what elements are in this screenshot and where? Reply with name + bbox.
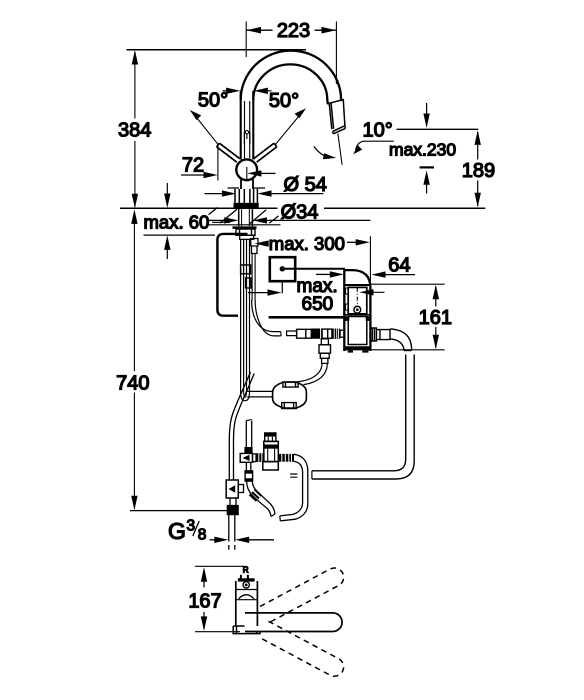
max 300 right arrowhead	[356, 239, 370, 245]
svg-text:max. 300: max. 300	[269, 233, 345, 254]
unit sensor leader shaft	[372, 291, 385, 293]
svg-text:8: 8	[198, 527, 207, 544]
dimension 223 left arrowhead	[246, 27, 261, 34]
lever plan dashed down	[260, 621, 344, 676]
svg-text:Ø 54: Ø 54	[284, 174, 327, 196]
dia 34 dim line right	[267, 219, 371, 221]
hose weight bottom clamp	[282, 403, 297, 409]
10deg leader curve	[356, 141, 364, 150]
max230 lower arrow shaft	[426, 184, 428, 194]
unit right outlet fittings	[370, 328, 376, 341]
mounting shank walls	[239, 208, 253, 226]
svg-text:650: 650	[302, 294, 334, 315]
dimension 189 line	[477, 132, 479, 206]
hose from bundle curving to chain level	[252, 300, 281, 332]
svg-text:189: 189	[462, 160, 495, 182]
spray axis line (10deg)	[338, 134, 342, 165]
body step ticks	[228, 187, 266, 189]
unit inner cavity	[348, 287, 367, 313]
middle pipe top cut	[246, 420, 251, 421]
unit mid line	[345, 314, 369, 316]
unit sensor centerline (dash-dot)	[356, 288, 358, 307]
hose bundle pair 1	[241, 240, 244, 386]
50deg right far arrowhead	[295, 108, 306, 118]
dimension 72 left arrowhead (points right)	[204, 172, 218, 178]
hose break stub	[287, 331, 297, 336]
middle dark nut	[244, 447, 252, 454]
plan body mid line	[236, 589, 257, 591]
lever handle left position	[217, 143, 240, 162]
svg-text:max. 60: max. 60	[144, 212, 210, 233]
left supply pipe lower	[229, 515, 235, 550]
right hose down	[312, 355, 414, 480]
svg-text:R: R	[243, 565, 249, 574]
middle round nut	[245, 471, 253, 481]
connector chain dark block	[311, 329, 322, 339]
mounting washer	[233, 226, 257, 229]
spray head body	[329, 100, 345, 129]
plan body circle	[243, 582, 249, 588]
max230 upper arrowhead (down)	[423, 114, 429, 129]
unit left inner blocks	[346, 288, 349, 310]
left fitting neck	[230, 498, 236, 505]
ball joint	[236, 159, 257, 180]
left hex nut	[227, 505, 238, 514]
sensor cable	[252, 254, 255, 301]
check valve cap	[265, 433, 276, 441]
extension line left of 223	[245, 22, 247, 58]
max230 lower arrowhead (up)	[423, 170, 429, 185]
G3/8 right shaft	[248, 539, 274, 541]
counter hatching left	[209, 207, 238, 223]
max650 left arrowhead	[268, 289, 282, 295]
body below ball	[241, 179, 253, 189]
plan view top reference line	[195, 565, 244, 567]
hose connector block 2	[246, 278, 251, 288]
middle T-fitting	[240, 453, 252, 462]
unit sensor leader arrowhead	[359, 289, 373, 295]
diagonal hose to lower assembly	[229, 372, 254, 480]
spray head bottom joint line	[333, 126, 345, 132]
remote box stem	[281, 281, 283, 293]
control unit top inner line	[344, 284, 370, 286]
counter hatching right	[250, 209, 291, 224]
spout outer curve	[241, 51, 342, 102]
swivel arc left	[314, 146, 330, 157]
dia 34 left arrowhead	[224, 217, 238, 223]
unit lower cavity	[348, 317, 367, 345]
extension line right of 223	[335, 22, 337, 85]
dimension 167 line	[203, 570, 205, 630]
dimension 64 arrowhead	[371, 271, 385, 277]
middle pipe upper	[246, 421, 251, 447]
valve right connector	[278, 454, 294, 462]
svg-text:167: 167	[188, 590, 221, 612]
svg-text:223: 223	[277, 20, 310, 42]
dimension 740 top arrowhead	[131, 209, 137, 224]
plan body top posts	[241, 575, 248, 579]
max 300 right shaft	[347, 241, 357, 243]
G3/8 left arrowhead	[214, 537, 228, 543]
connector chain striped block	[332, 329, 340, 339]
svg-text:50°: 50°	[269, 90, 299, 112]
dimension 384 line	[134, 52, 136, 207]
top reference line (spout height datum)	[127, 49, 307, 51]
max230 upper arrow shaft	[426, 103, 428, 115]
svg-text:161: 161	[419, 307, 452, 329]
max 300 left arrowhead	[255, 240, 269, 246]
max230 lower tick bar	[420, 166, 434, 168]
middle T inner arrow	[243, 455, 250, 461]
10deg leader arrowhead	[353, 145, 362, 154]
faucet column inner tube lines	[245, 101, 250, 159]
hose fitting bands	[250, 490, 262, 502]
svg-text:64: 64	[388, 255, 410, 277]
unit bottom band	[344, 346, 370, 350]
dimension 64 shaft	[384, 274, 415, 276]
max650 right arrow shaft	[316, 273, 332, 275]
dia 54 dim line right	[271, 193, 323, 195]
740 bottom reference line	[130, 510, 227, 512]
mounting nut	[236, 229, 255, 235]
svg-text:max.230: max.230	[389, 140, 456, 160]
big hose open end	[279, 516, 282, 521]
dia 54 left arrowhead	[222, 190, 236, 196]
max 60 bottom line	[144, 234, 216, 236]
svg-text:72: 72	[182, 155, 204, 177]
swivel arc left arrowhead	[323, 153, 336, 159]
valve T body	[263, 462, 279, 470]
remote box	[270, 257, 295, 281]
connector chain block1	[297, 329, 312, 338]
svg-text:50°: 50°	[198, 90, 228, 112]
shank lower stub	[240, 235, 254, 239]
connector chain coupling to unit	[340, 330, 344, 337]
max 60 leader	[212, 221, 230, 223]
sensor cable connector upper	[251, 239, 258, 254]
50deg angle line right	[276, 111, 304, 145]
50deg arrow at column right	[254, 88, 268, 94]
max650 left arrow shaft	[248, 292, 269, 294]
hose from connector to weight	[299, 363, 323, 381]
max 60 upper arrow	[166, 183, 168, 195]
dia 54 right arrowhead	[257, 190, 271, 196]
dimension 189 top arrowhead	[475, 130, 481, 145]
50deg arrow at column left	[226, 88, 240, 94]
hose loop bracket (C-shape)	[217, 234, 247, 316]
middle pipe lower	[246, 462, 250, 471]
50deg angle line left	[192, 112, 218, 144]
big hose from valve to bottom	[280, 454, 308, 521]
161 top reference line	[370, 283, 444, 285]
dimension 72 dim line	[181, 174, 211, 176]
dimension 167 bottom arrowhead	[201, 616, 207, 631]
dimension 161 top arrowhead	[433, 285, 439, 300]
dimension 740 line	[133, 212, 135, 509]
unit side bosses	[345, 316, 350, 321]
check valve body	[264, 441, 279, 461]
max650 dim line	[269, 316, 345, 319]
base flange	[234, 203, 258, 207]
dimension 72 extension line	[217, 146, 219, 181]
remote box dot	[280, 266, 285, 271]
dimension 167 top arrowhead	[201, 567, 207, 582]
faucet column outer walls	[241, 91, 254, 160]
unit feet	[348, 350, 369, 352]
dimension 161 bottom arrowhead	[433, 335, 439, 350]
dimension 384 top arrowhead	[132, 50, 138, 65]
dia 34 right arrowhead	[253, 217, 267, 223]
10deg underline	[363, 140, 394, 142]
spout outlet reference line	[397, 128, 479, 130]
svg-text:740: 740	[116, 373, 149, 395]
connector middle to valve	[253, 454, 257, 462]
column inner detail (cartridge mark)	[244, 132, 250, 145]
plan body cap band	[238, 578, 255, 581]
50deg left far arrowhead	[190, 110, 201, 120]
dimension 189 bottom arrowhead	[475, 193, 481, 208]
dimension 161 line	[435, 287, 437, 348]
control unit outline	[344, 270, 370, 351]
hose weight top clamp	[283, 382, 298, 387]
G3/8 left arrow shaft	[210, 539, 217, 541]
right hose stub to valve	[290, 474, 297, 477]
lever plan dashed up	[260, 568, 344, 623]
hose U-turn at bottom	[241, 385, 250, 401]
left T-fitting inner arrow detail	[229, 485, 236, 492]
G3/8 right arrowhead	[235, 537, 249, 543]
dimension 223 dim line	[246, 29, 336, 31]
left T-fitting	[226, 480, 238, 498]
dimension 223 right arrowhead	[322, 27, 337, 34]
body wide section (O54 housing)	[235, 189, 257, 204]
max650 right arrowhead	[330, 271, 344, 277]
svg-text:G: G	[168, 518, 186, 544]
counter bottom line	[207, 224, 281, 226]
hose from middle nut curving right-down	[247, 481, 271, 517]
dimension 384 bottom arrowhead	[132, 194, 138, 209]
plan body outline	[236, 581, 258, 626]
max 60 lower arrow	[164, 235, 170, 250]
hose left of weight joining bundle	[247, 391, 273, 397]
dimension 72 right shaft	[260, 172, 276, 174]
dia 34 dim line left	[207, 219, 229, 221]
svg-text:10°: 10°	[363, 120, 393, 142]
unit outlet elbow	[390, 329, 412, 351]
hose bundle pair 2	[247, 240, 250, 386]
161 bottom reference line	[371, 349, 445, 351]
max 300 extension line	[369, 236, 371, 284]
plan body smile arc	[239, 595, 254, 599]
dia 54 dim line left	[205, 193, 224, 195]
dimension 72 right arrowhead (points left at axis)	[247, 170, 261, 176]
mounting shank inner lines	[242, 208, 250, 226]
unit indicator circle	[354, 306, 361, 313]
spray head tip	[333, 126, 346, 134]
hose open end	[271, 514, 275, 517]
left T side stub	[238, 485, 243, 493]
svg-text:384: 384	[118, 120, 151, 142]
spout inner curve	[253, 64, 328, 104]
plan body base	[233, 626, 260, 634]
hose connector block 1	[241, 265, 251, 274]
connector chain block2	[322, 329, 332, 338]
plan body lower line	[236, 599, 257, 601]
dimension 740 bottom arrowhead	[131, 496, 137, 511]
spray head top joint line	[328, 99, 344, 103]
lever handle right position	[254, 143, 277, 162]
remote box leader to unit	[285, 268, 345, 270]
ball centerline	[246, 167, 248, 180]
counter top line	[120, 207, 485, 209]
plan view bottom reference line	[195, 631, 240, 633]
lever plan solid	[245, 613, 342, 632]
hose weight body	[273, 382, 307, 408]
drop connector below chain	[321, 339, 328, 345]
